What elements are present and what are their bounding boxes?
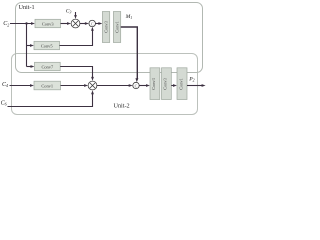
multiplier circle X1 bbox=[71, 19, 80, 28]
wire concat c2 to conv block A bbox=[139, 85, 146, 87]
svg-text:Conv5: Conv5 bbox=[41, 44, 54, 49]
wire Conv3 to multiplier bbox=[61, 23, 68, 25]
svg-text:Conv1: Conv1 bbox=[41, 84, 53, 89]
svg-text:Conv3: Conv3 bbox=[104, 21, 109, 32]
conv block vertical V2 bbox=[113, 12, 120, 43]
wire Conv1 to multiplier X2 bbox=[61, 85, 85, 87]
wire multiplier to concat C1 bbox=[80, 23, 86, 25]
wire C3 down into multiplier bbox=[75, 12, 77, 16]
svg-text:Conv3: Conv3 bbox=[42, 22, 55, 27]
svg-text:Conv1: Conv1 bbox=[178, 78, 183, 89]
Unit-2 enclosure bbox=[12, 54, 198, 115]
svg-text:Unit-1: Unit-1 bbox=[19, 4, 35, 11]
wire branch to Conv row2 bbox=[27, 45, 31, 47]
conv block vertical A bbox=[150, 68, 160, 100]
wire Conv7 right and down into multiplier X2 bbox=[60, 67, 92, 78]
wire C2 to Conv box row1 bbox=[10, 23, 32, 25]
wire Conv5 right and up into concat c1 bbox=[60, 30, 93, 46]
multiplier circle X2 bbox=[88, 81, 97, 90]
Unit-1 enclosure bbox=[16, 3, 203, 73]
svg-text:C: C bbox=[91, 21, 94, 26]
wire branch to Conv row3 bbox=[27, 66, 32, 68]
svg-text:Unit-2: Unit-2 bbox=[114, 103, 130, 110]
conv block vertical V1 bbox=[102, 12, 109, 43]
conv block vertical B bbox=[162, 68, 172, 100]
conv box unit2 Conv1 bbox=[34, 81, 61, 90]
wire P2 output bbox=[187, 85, 202, 87]
conv box row2 Conv5 bbox=[34, 41, 60, 49]
wire M1 from conv block right then down to concat c2 bbox=[121, 27, 138, 79]
conv block vertical C bbox=[177, 68, 187, 100]
concat circle c2 bbox=[133, 82, 139, 88]
conv box row3 Conv7 bbox=[35, 62, 61, 70]
svg-text:C4: C4 bbox=[2, 82, 8, 88]
conv box row1 Conv3 bbox=[35, 19, 61, 27]
svg-text:Conv3: Conv3 bbox=[163, 78, 168, 89]
junction dot on C2 wire bbox=[25, 22, 27, 24]
wire C6 right then up into multiplier X2 bbox=[8, 94, 93, 107]
svg-text:C6: C6 bbox=[1, 100, 7, 106]
wire multiplier X2 to concat c2 bbox=[97, 85, 129, 87]
wire concat c1 to Conv block bbox=[95, 23, 99, 25]
wire junction vertical down to row3 bbox=[26, 24, 28, 67]
wire conv block B to conv block C bbox=[171, 85, 173, 87]
svg-text:Conv7: Conv7 bbox=[41, 65, 54, 70]
svg-text:Conv3: Conv3 bbox=[151, 78, 156, 89]
concat circle c1 bbox=[89, 20, 96, 27]
svg-text:Conv1: Conv1 bbox=[115, 21, 120, 32]
svg-text:C: C bbox=[135, 83, 138, 88]
wire C4 to Conv1 box bbox=[10, 85, 31, 87]
svg-text:C2: C2 bbox=[3, 21, 9, 27]
